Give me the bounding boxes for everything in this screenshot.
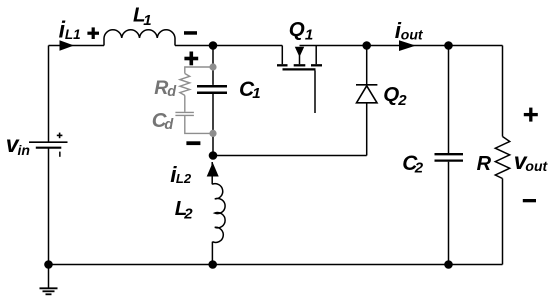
svg-text:2: 2 [183,205,193,222]
svg-text:Q: Q [289,18,305,41]
svg-text:Q: Q [383,83,399,106]
svg-text:1: 1 [143,12,151,29]
svg-text:d: d [167,84,177,100]
svg-text:L2: L2 [176,171,192,186]
svg-text:1: 1 [305,26,313,43]
svg-text:d: d [164,117,174,133]
svg-text:out: out [525,158,548,174]
svg-text:2: 2 [414,159,424,176]
svg-text:in: in [18,142,30,158]
svg-text:out: out [401,26,424,42]
svg-text:2: 2 [397,92,407,109]
svg-text:R: R [477,153,492,175]
svg-text:R: R [154,77,168,99]
svg-text:1: 1 [252,85,260,102]
svg-text:L1: L1 [65,27,81,42]
